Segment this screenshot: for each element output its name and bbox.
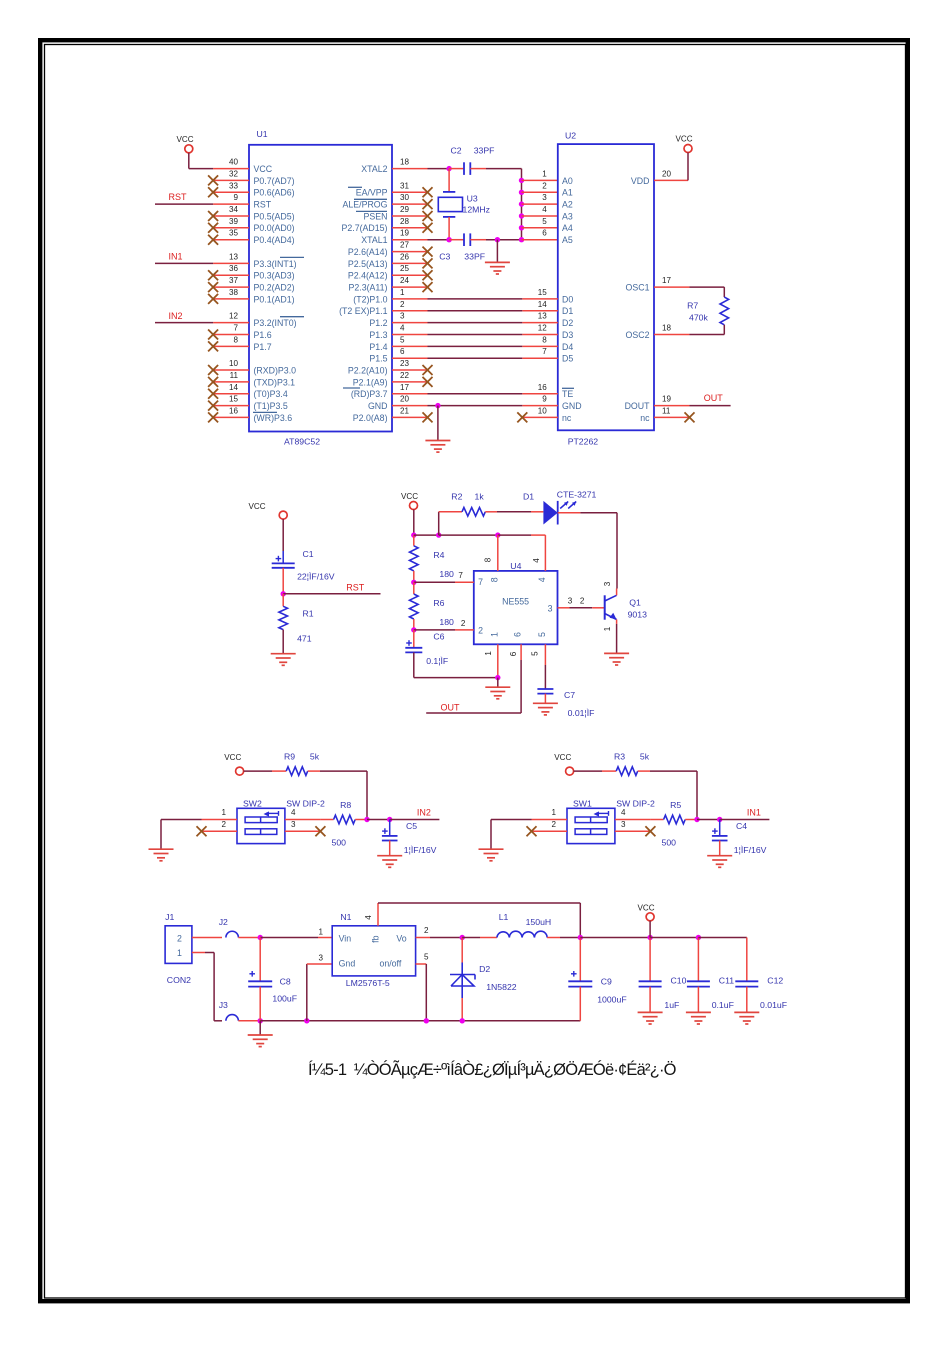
svg-text:22: 22 xyxy=(400,371,410,380)
svg-text:P1.2: P1.2 xyxy=(369,318,387,328)
svg-text:R6: R6 xyxy=(433,598,444,608)
svg-text:1: 1 xyxy=(400,288,405,297)
svg-text:P0.3(AD3): P0.3(AD3) xyxy=(254,271,295,281)
svg-text:C11: C11 xyxy=(719,976,734,986)
svg-text:471: 471 xyxy=(297,633,312,643)
svg-text:3: 3 xyxy=(548,604,553,614)
svg-text:RST: RST xyxy=(169,192,188,202)
svg-text:AT89C52: AT89C52 xyxy=(284,437,320,447)
svg-text:34: 34 xyxy=(229,205,239,214)
svg-text:39: 39 xyxy=(229,217,239,226)
svg-text:500: 500 xyxy=(662,837,677,847)
svg-text:27: 27 xyxy=(400,241,410,250)
svg-text:R9: R9 xyxy=(284,751,295,761)
svg-text:40: 40 xyxy=(229,158,239,167)
svg-text:1: 1 xyxy=(484,651,493,656)
svg-text:C4: C4 xyxy=(736,821,747,831)
svg-text:(RXD)P3.0: (RXD)P3.0 xyxy=(254,365,297,375)
svg-text:DOUT: DOUT xyxy=(625,401,651,411)
svg-text:P2.6(A14): P2.6(A14) xyxy=(348,247,388,257)
svg-text:35: 35 xyxy=(229,229,239,238)
svg-text:8: 8 xyxy=(233,335,238,344)
svg-text:20: 20 xyxy=(662,169,672,178)
svg-text:PSEN: PSEN xyxy=(364,211,388,221)
svg-text:3: 3 xyxy=(318,954,323,963)
svg-text:100uF: 100uF xyxy=(272,994,297,1004)
svg-text:2: 2 xyxy=(551,820,556,829)
svg-text:U2: U2 xyxy=(565,130,576,140)
svg-text:Vin: Vin xyxy=(339,933,352,943)
svg-text:2: 2 xyxy=(221,820,226,829)
svg-text:P0.4(AD4): P0.4(AD4) xyxy=(254,235,295,245)
svg-text:P2.7(AD15): P2.7(AD15) xyxy=(342,223,388,233)
svg-text:2: 2 xyxy=(177,934,182,944)
svg-text:6: 6 xyxy=(513,632,523,637)
svg-text:nc: nc xyxy=(640,413,650,423)
svg-text:1000uF: 1000uF xyxy=(597,995,626,1005)
svg-text:D1: D1 xyxy=(523,492,534,502)
svg-text:CTE-3271: CTE-3271 xyxy=(557,490,597,500)
svg-text:D0: D0 xyxy=(562,294,573,304)
svg-text:(T2 EX)P1.1: (T2 EX)P1.1 xyxy=(339,306,388,316)
svg-text:8: 8 xyxy=(489,577,499,582)
svg-text:2: 2 xyxy=(580,596,585,605)
svg-text:13: 13 xyxy=(229,252,239,261)
svg-text:29: 29 xyxy=(400,205,410,214)
svg-text:IN2: IN2 xyxy=(417,807,431,817)
svg-text:1: 1 xyxy=(318,928,323,937)
svg-text:14: 14 xyxy=(538,300,548,309)
svg-text:1¦ÌF/16V: 1¦ÌF/16V xyxy=(734,845,767,855)
svg-text:16: 16 xyxy=(538,383,548,392)
svg-text:36: 36 xyxy=(229,264,239,273)
svg-text:(T2)P1.0: (T2)P1.0 xyxy=(353,294,387,304)
svg-text:LM2576T-5: LM2576T-5 xyxy=(346,978,390,988)
svg-text:5: 5 xyxy=(424,953,429,962)
svg-text:24: 24 xyxy=(400,276,410,285)
svg-text:ALE/PROG: ALE/PROG xyxy=(343,200,388,210)
svg-text:7: 7 xyxy=(478,577,483,587)
svg-text:IN1: IN1 xyxy=(747,807,761,817)
svg-text:8: 8 xyxy=(542,335,547,344)
svg-text:C6: C6 xyxy=(433,632,444,642)
svg-text:6: 6 xyxy=(400,347,405,356)
svg-text:C9: C9 xyxy=(601,977,612,987)
svg-text:SW1: SW1 xyxy=(573,799,592,809)
svg-text:(WR)P3.6: (WR)P3.6 xyxy=(254,413,293,423)
svg-text:17: 17 xyxy=(662,276,672,285)
svg-text:14: 14 xyxy=(229,383,239,392)
svg-text:IN1: IN1 xyxy=(169,252,183,262)
svg-text:10: 10 xyxy=(229,359,239,368)
svg-text:2: 2 xyxy=(461,619,466,628)
svg-text:9: 9 xyxy=(542,395,547,404)
svg-text:38: 38 xyxy=(229,288,239,297)
svg-text:P2.0(A8): P2.0(A8) xyxy=(353,413,388,423)
svg-text:P3.2(INT0): P3.2(INT0) xyxy=(254,318,297,328)
svg-text:CON2: CON2 xyxy=(167,975,191,985)
svg-text:37: 37 xyxy=(229,276,239,285)
svg-text:4: 4 xyxy=(621,808,626,817)
svg-text:2: 2 xyxy=(424,926,429,935)
svg-text:150uH: 150uH xyxy=(526,917,552,927)
svg-text:1uF: 1uF xyxy=(664,1000,679,1010)
svg-text:1: 1 xyxy=(177,948,182,958)
svg-text:19: 19 xyxy=(400,229,410,238)
svg-text:(T1)P3.5: (T1)P3.5 xyxy=(254,401,288,411)
svg-text:J3: J3 xyxy=(219,1000,228,1010)
svg-text:D2: D2 xyxy=(479,964,490,974)
svg-text:VCC: VCC xyxy=(401,492,418,501)
svg-text:J1: J1 xyxy=(165,912,174,922)
svg-text:15: 15 xyxy=(538,288,548,297)
svg-text:18: 18 xyxy=(662,324,672,333)
svg-text:VCC: VCC xyxy=(254,164,273,174)
svg-text:D2: D2 xyxy=(562,318,573,328)
svg-text:A5: A5 xyxy=(562,235,573,245)
svg-text:XTAL1: XTAL1 xyxy=(361,235,387,245)
svg-text:33PF: 33PF xyxy=(464,251,485,261)
svg-text:P0.0(AD0): P0.0(AD0) xyxy=(254,223,295,233)
svg-text:5: 5 xyxy=(400,335,405,344)
svg-text:5k: 5k xyxy=(310,751,320,761)
svg-text:A4: A4 xyxy=(562,223,573,233)
svg-text:3: 3 xyxy=(400,312,405,321)
svg-text:7: 7 xyxy=(233,324,238,333)
svg-text:A3: A3 xyxy=(562,211,573,221)
svg-text:P1.6: P1.6 xyxy=(254,330,272,340)
svg-text:15: 15 xyxy=(229,395,239,404)
svg-text:C3: C3 xyxy=(439,251,450,261)
svg-text:U4: U4 xyxy=(510,561,521,571)
svg-text:6: 6 xyxy=(542,229,547,238)
svg-text:P3.3(INT1): P3.3(INT1) xyxy=(254,259,297,269)
svg-text:P2.5(A13): P2.5(A13) xyxy=(348,259,388,269)
svg-text:32: 32 xyxy=(229,169,239,178)
svg-text:SW DIP-2: SW DIP-2 xyxy=(286,799,325,809)
svg-text:16: 16 xyxy=(229,406,239,415)
svg-text:6: 6 xyxy=(509,651,518,656)
svg-text:nc: nc xyxy=(562,413,572,423)
svg-text:(TXD)P3.1: (TXD)P3.1 xyxy=(254,377,296,387)
svg-text:17: 17 xyxy=(400,383,410,392)
svg-text:P1.7: P1.7 xyxy=(254,342,272,352)
svg-text:R3: R3 xyxy=(614,751,625,761)
svg-text:1: 1 xyxy=(542,169,547,178)
svg-text:VCC: VCC xyxy=(248,502,265,511)
svg-text:IN2: IN2 xyxy=(169,311,183,321)
svg-text:OUT: OUT xyxy=(704,393,724,403)
svg-text:GND: GND xyxy=(368,401,388,411)
svg-text:21: 21 xyxy=(400,406,410,415)
svg-text:D5: D5 xyxy=(562,354,573,364)
svg-text:2: 2 xyxy=(478,625,483,635)
svg-text:19: 19 xyxy=(662,395,672,404)
svg-text:5: 5 xyxy=(537,632,547,637)
svg-text:10: 10 xyxy=(538,406,548,415)
svg-text:U1: U1 xyxy=(257,129,268,139)
svg-text:VCC: VCC xyxy=(637,903,654,912)
svg-text:P0.2(AD2): P0.2(AD2) xyxy=(254,283,295,293)
svg-text:0.1¦ÌF: 0.1¦ÌF xyxy=(426,656,448,666)
svg-text:Gnd: Gnd xyxy=(339,959,356,969)
svg-text:3: 3 xyxy=(603,581,612,586)
svg-text:L1: L1 xyxy=(499,912,509,922)
svg-text:3: 3 xyxy=(542,193,547,202)
svg-text:D3: D3 xyxy=(562,330,573,340)
svg-text:PT2262: PT2262 xyxy=(568,436,599,446)
svg-text:VCC: VCC xyxy=(176,135,193,144)
svg-text:8: 8 xyxy=(484,557,493,562)
svg-text:XTAL2: XTAL2 xyxy=(361,164,387,174)
svg-text:Vo: Vo xyxy=(396,933,406,943)
svg-text:1¦ÌF/16V: 1¦ÌF/16V xyxy=(404,845,437,855)
svg-text:1: 1 xyxy=(551,808,556,817)
svg-text:5: 5 xyxy=(531,651,540,656)
svg-text:30: 30 xyxy=(400,193,410,202)
svg-text:4: 4 xyxy=(400,324,405,333)
svg-text:20: 20 xyxy=(400,395,410,404)
svg-text:GND: GND xyxy=(562,401,582,411)
svg-text:4: 4 xyxy=(291,808,296,817)
svg-text:P1.4: P1.4 xyxy=(369,342,387,352)
svg-text:A2: A2 xyxy=(562,200,573,210)
svg-text:3: 3 xyxy=(621,820,626,829)
svg-text:180: 180 xyxy=(439,569,454,579)
svg-text:J2: J2 xyxy=(219,917,228,927)
svg-text:D4: D4 xyxy=(562,342,573,352)
svg-text:D1: D1 xyxy=(562,306,573,316)
svg-text:R1: R1 xyxy=(303,608,314,618)
svg-text:1: 1 xyxy=(603,626,612,631)
svg-text:11: 11 xyxy=(662,406,671,415)
svg-text:C10: C10 xyxy=(671,976,687,986)
svg-text:A1: A1 xyxy=(562,188,573,198)
svg-text:P2.1(A9): P2.1(A9) xyxy=(353,377,388,387)
svg-text:P2.4(A12): P2.4(A12) xyxy=(348,271,388,281)
svg-text:0.01uF: 0.01uF xyxy=(760,1000,787,1010)
svg-text:25: 25 xyxy=(400,264,410,273)
svg-text:U3: U3 xyxy=(467,194,478,204)
svg-text:11: 11 xyxy=(230,371,239,380)
svg-text:P0.1(AD1): P0.1(AD1) xyxy=(254,294,295,304)
svg-text:3: 3 xyxy=(568,596,573,605)
svg-text:SW DIP-2: SW DIP-2 xyxy=(616,799,655,809)
svg-text:470k: 470k xyxy=(689,313,708,323)
svg-text:9: 9 xyxy=(233,193,238,202)
svg-text:2: 2 xyxy=(400,300,405,309)
svg-text:P1.5: P1.5 xyxy=(369,354,387,364)
svg-text:7: 7 xyxy=(542,347,547,356)
svg-text:P0.5(AD5): P0.5(AD5) xyxy=(254,211,295,221)
svg-text:R4: R4 xyxy=(433,550,444,560)
svg-text:1: 1 xyxy=(221,808,226,817)
svg-text:7: 7 xyxy=(458,571,463,580)
svg-text:EA/VPP: EA/VPP xyxy=(356,188,388,198)
svg-text:RST: RST xyxy=(346,582,365,592)
svg-text:(T0)P3.4: (T0)P3.4 xyxy=(254,389,288,399)
svg-text:VCC: VCC xyxy=(224,753,241,762)
svg-text:on/off: on/off xyxy=(379,959,401,969)
svg-text:(RD)P3.7: (RD)P3.7 xyxy=(351,389,388,399)
svg-text:R8: R8 xyxy=(340,800,351,810)
svg-text:5: 5 xyxy=(542,217,547,226)
svg-text:5k: 5k xyxy=(640,751,650,761)
svg-text:C7: C7 xyxy=(564,690,575,700)
svg-text:4: 4 xyxy=(542,205,547,214)
svg-text:1N5822: 1N5822 xyxy=(486,982,517,992)
svg-text:C12: C12 xyxy=(767,976,783,986)
svg-text:4: 4 xyxy=(364,915,373,920)
svg-text:Í¼5-1 ¼ÒÓÃµçÆ÷ºìÍâÒ£¿ØÏµÍ³µÄ¿: Í¼5-1 ¼ÒÓÃµçÆ÷ºìÍâÒ£¿ØÏµÍ³µÄ¿ØÖÆÓë·¢Éä²¿… xyxy=(308,1059,677,1079)
svg-text:Q1: Q1 xyxy=(629,598,641,608)
svg-text:180: 180 xyxy=(439,617,454,627)
svg-text:1: 1 xyxy=(489,632,499,637)
svg-text:33PF: 33PF xyxy=(474,146,495,156)
svg-text:OSC2: OSC2 xyxy=(626,330,650,340)
svg-text:33: 33 xyxy=(229,181,239,190)
svg-text:0.1uF: 0.1uF xyxy=(712,1000,734,1010)
svg-text:P2.3(A11): P2.3(A11) xyxy=(349,283,388,293)
svg-text:31: 31 xyxy=(400,181,410,190)
svg-text:4: 4 xyxy=(532,558,541,563)
svg-text:9013: 9013 xyxy=(628,610,647,620)
svg-text:0.01¦ÌF: 0.01¦ÌF xyxy=(568,708,595,718)
svg-text:22¦ÌF/16V: 22¦ÌF/16V xyxy=(297,572,335,582)
svg-text:RST: RST xyxy=(254,200,272,210)
svg-text:N1: N1 xyxy=(340,912,351,922)
svg-text:C8: C8 xyxy=(280,977,291,987)
svg-text:R5: R5 xyxy=(670,800,681,810)
svg-text:NE555: NE555 xyxy=(502,597,529,607)
svg-text:C1: C1 xyxy=(303,549,314,559)
svg-text:fb: fb xyxy=(371,935,381,942)
svg-text:12: 12 xyxy=(229,312,239,321)
svg-text:3: 3 xyxy=(291,820,296,829)
svg-text:2: 2 xyxy=(542,181,547,190)
svg-text:OSC1: OSC1 xyxy=(626,283,650,293)
svg-text:12: 12 xyxy=(538,324,548,333)
svg-text:26: 26 xyxy=(400,252,410,261)
svg-text:TE: TE xyxy=(562,389,573,399)
svg-text:P1.3: P1.3 xyxy=(369,330,387,340)
svg-text:18: 18 xyxy=(400,158,410,167)
svg-text:C2: C2 xyxy=(451,146,462,156)
svg-text:R7: R7 xyxy=(687,301,698,311)
svg-text:P0.6(AD6): P0.6(AD6) xyxy=(254,188,295,198)
svg-text:28: 28 xyxy=(400,217,410,226)
svg-text:R2: R2 xyxy=(451,492,462,502)
svg-text:4: 4 xyxy=(537,577,547,582)
svg-text:P0.7(AD7): P0.7(AD7) xyxy=(254,176,295,186)
svg-text:P2.2(A10): P2.2(A10) xyxy=(348,365,388,375)
svg-text:VCC: VCC xyxy=(675,135,692,144)
svg-text:13: 13 xyxy=(538,312,548,321)
svg-text:OUT: OUT xyxy=(441,702,461,712)
svg-text:23: 23 xyxy=(400,359,410,368)
svg-text:500: 500 xyxy=(332,837,347,847)
svg-text:C5: C5 xyxy=(406,821,417,831)
svg-text:SW2: SW2 xyxy=(243,799,262,809)
svg-text:A0: A0 xyxy=(562,176,573,186)
svg-text:1k: 1k xyxy=(475,492,485,502)
svg-text:12MHz: 12MHz xyxy=(463,205,491,215)
svg-text:VCC: VCC xyxy=(554,753,571,762)
svg-text:VDD: VDD xyxy=(631,176,650,186)
